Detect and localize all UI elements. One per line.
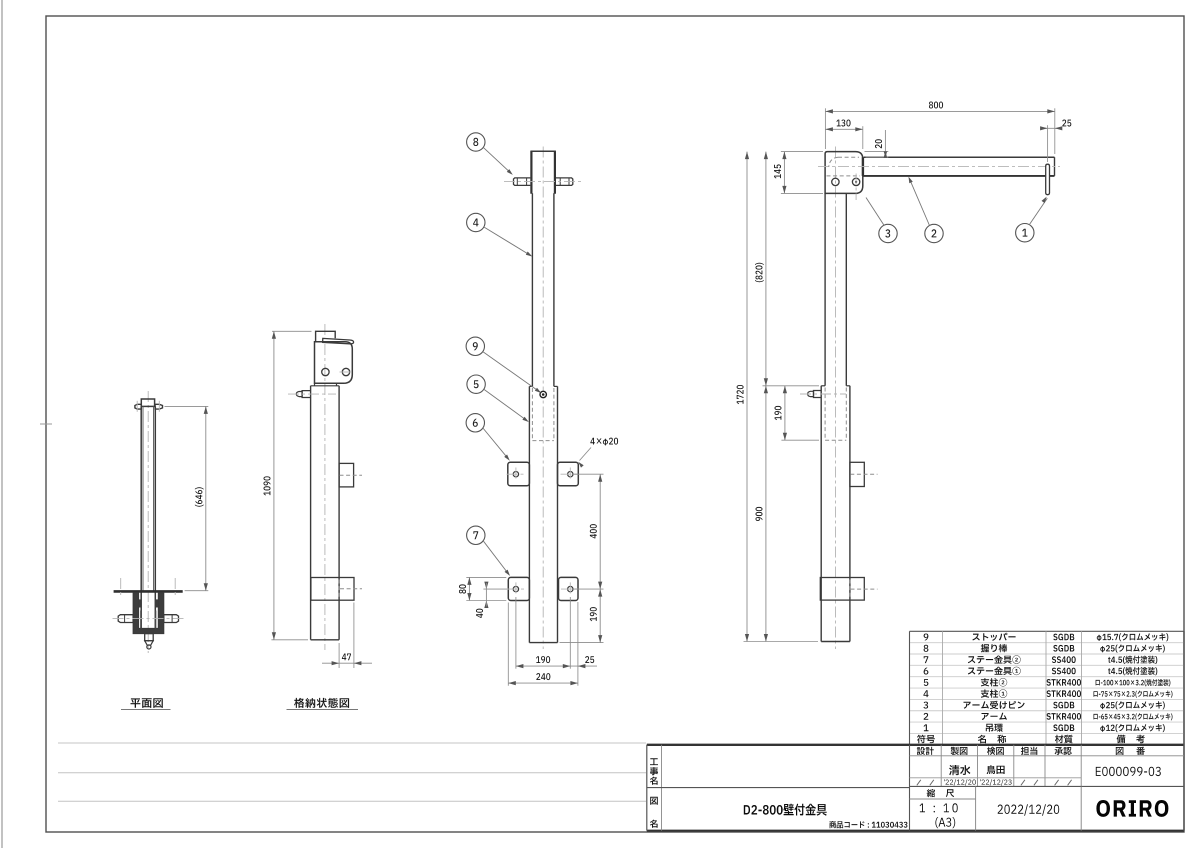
- side view head block: [825, 152, 863, 194]
- parts row 5: [924, 679, 929, 686]
- balloon 2: [925, 224, 943, 242]
- drawing number E000099-03: [1096, 767, 1161, 776]
- plan view clamp nut blocks: [139, 599, 142, 607]
- scale value 1:10 A3: [920, 803, 958, 812]
- plan view title 平面図: [131, 698, 163, 708]
- dimension 25 top right: [1047, 125, 1049, 162]
- label 工事名 vertical: [650, 758, 658, 765]
- plan view side screw right: [164, 615, 179, 623]
- signature dates: [944, 779, 976, 785]
- balloon 9: [466, 337, 484, 355]
- plan view tube inner walls: [142, 406, 144, 590]
- parts row 2: [924, 713, 929, 720]
- balloon 7: [467, 526, 485, 544]
- stowed view vertical centerline: [324, 324, 326, 650]
- dimension label (646): [195, 487, 204, 506]
- dimension label 190 side: [775, 406, 782, 420]
- dimension label 800: [929, 102, 943, 109]
- balloon 5: [467, 375, 485, 393]
- stowed view hook stowed (slanted ring): [323, 338, 354, 343]
- parts table header row: [917, 735, 935, 744]
- dimension 240 extension lines: [507, 603, 509, 686]
- lower stay hole right: [568, 586, 573, 591]
- dimension 240 line: [508, 682, 578, 684]
- title block sign grid: [940, 745, 942, 787]
- side view stay bracket 2 edge: [820, 578, 864, 601]
- stowed view title 格納状態図: [294, 698, 349, 708]
- side view hook ring (item 1): [1046, 164, 1050, 195]
- dimension 1090 extension lines: [272, 330, 312, 332]
- stowed view head hole left: [322, 368, 329, 375]
- dimension label 1090: [264, 476, 271, 495]
- dimension 47 extension lines: [338, 643, 340, 668]
- label 図名 vertical: [650, 797, 658, 805]
- stowed view head body: [315, 342, 353, 384]
- dimension label 47: [342, 654, 351, 661]
- balloon 3: [879, 224, 897, 242]
- stopper ball (item 9): [540, 391, 546, 397]
- signature 清水: [949, 765, 970, 775]
- lower stay hole left: [513, 586, 518, 591]
- parts row 7: [924, 656, 929, 663]
- dimension label 130: [836, 120, 850, 127]
- side view lower column: [820, 386, 822, 642]
- front view handle sleeve (top section): [530, 150, 556, 152]
- balloon 6: [466, 414, 484, 432]
- dimension label (820): [755, 263, 764, 282]
- dimension 800 extension lines: [824, 108, 826, 149]
- dimension label 145: [774, 164, 781, 178]
- plan view stopper pin centerline ticks: [136, 401, 138, 413]
- dimension label 190 vertical: [590, 607, 597, 621]
- lower stay plate left: [508, 577, 529, 600]
- upper stay hole left: [513, 472, 518, 477]
- dimension label 900: [756, 507, 763, 521]
- upper column 75sq: [531, 193, 533, 386]
- plan view U bracket section walls: [133, 593, 164, 634]
- balloon 8: [467, 133, 485, 151]
- plan view bottom bolt: [145, 634, 154, 641]
- balloon 1: [1016, 224, 1034, 242]
- upper stay plate left: [508, 462, 530, 485]
- dimension 190/25 horizontal extensions: [515, 597, 517, 669]
- stowed view top tab: [316, 331, 336, 342]
- parts table grid: [910, 630, 1185, 632]
- parts row 3: [923, 702, 928, 709]
- dimension 145: [781, 151, 823, 153]
- plan view clamp strips: [140, 611, 141, 629]
- plan view stopper pin left end: [135, 404, 141, 409]
- dimension 190 vertical line: [599, 589, 601, 643]
- stowed view stopper pin: [302, 391, 311, 398]
- side view upper column: [824, 193, 826, 385]
- dimension label 20: [875, 139, 882, 148]
- parts row 1: [924, 724, 929, 731]
- dimension 1720: [744, 641, 819, 643]
- dimension 190 vertical extension: [560, 642, 604, 644]
- notes area line 3: [58, 800, 646, 802]
- dimension 190 side view: [781, 439, 819, 441]
- stowed view stay bracket 2 (side): [311, 578, 354, 601]
- dimension 1090 line: [273, 331, 275, 640]
- plan view flange screw centerline right: [174, 578, 176, 598]
- dimension 80 line: [468, 577, 470, 600]
- dimension label 25 top: [1062, 120, 1071, 127]
- dimension label 80: [459, 584, 466, 593]
- notes area line 2: [58, 772, 646, 774]
- lower stay plate right: [559, 577, 579, 600]
- stowed view head hole right: [342, 368, 349, 375]
- logo ORIRO: [1096, 800, 1168, 817]
- parts row 8: [924, 645, 929, 652]
- side view head-arm junction wall: [862, 157, 864, 176]
- parts row 6: [924, 668, 929, 675]
- side view stopper pin: [814, 391, 822, 398]
- handle bar left (握り棒): [514, 178, 531, 186]
- stowed view stay bracket 1 (side): [339, 463, 354, 487]
- dimension (646) line: [205, 406, 207, 590]
- plan view side screw left: [118, 615, 133, 623]
- dimension 130 line: [825, 128, 862, 130]
- plan view stopper pin right end: [155, 404, 162, 409]
- plan view side screw centerline: [113, 618, 185, 620]
- side view arm centerline: [818, 166, 1060, 168]
- date 2022/12/20: [998, 804, 1060, 816]
- dimension label 240: [536, 673, 550, 680]
- dimension 20: [865, 151, 889, 153]
- handle bar right (握り棒): [556, 178, 573, 186]
- dimension 400 line: [599, 474, 601, 589]
- side view head hole centerline: [855, 174, 857, 201]
- plan view tube top cap: [141, 399, 154, 406]
- dimension (820): [763, 385, 820, 387]
- lower column 100sq: [528, 386, 530, 642]
- dimension label 25: [585, 656, 594, 663]
- dimension 40 extension line: [483, 588, 507, 590]
- dimension label 1720: [737, 385, 744, 404]
- frame centering tick left: [40, 423, 52, 425]
- signature 鳥田: [987, 765, 1005, 774]
- balloon 4: [467, 213, 485, 231]
- dimension 900: [765, 386, 767, 642]
- signature slashes: [917, 780, 921, 786]
- product code 商品コード: [829, 821, 907, 828]
- sign header labels: [917, 747, 934, 755]
- dimension 47 line: [322, 662, 372, 664]
- upper stay plate right: [558, 462, 579, 485]
- scale cell 縮尺: [910, 798, 942, 800]
- parts row 4: [923, 690, 928, 697]
- dimension label 40: [476, 609, 483, 618]
- dimension 400 extension lines: [574, 473, 604, 475]
- plan view vertical centerline: [147, 391, 149, 653]
- plan view tube outer walls: [140, 406, 142, 628]
- dimension 80 extension lines: [466, 576, 506, 578]
- label 4xφ20 with leader: [590, 438, 618, 446]
- page left edge line: [1, 0, 3, 848]
- dimension 190 horizontal line: [516, 665, 570, 667]
- hidden insert of upper column inside lower: [531, 388, 533, 441]
- side view head holes: [832, 178, 839, 185]
- plan view flange screw centerline left: [120, 578, 122, 598]
- notes area line 1: [58, 742, 646, 744]
- front view vertical centerline: [542, 147, 544, 650]
- side view hidden insert: [824, 388, 826, 441]
- title block left section 工事名/図名: [661, 745, 663, 831]
- dimension 800 line: [825, 110, 1054, 112]
- dimension 25 line: [570, 665, 597, 667]
- dimension label 400: [590, 524, 597, 538]
- side view vertical centerline: [835, 147, 837, 650]
- parts row 9: [924, 634, 929, 641]
- upper stay hole right: [568, 472, 573, 477]
- stowed view column: [310, 386, 312, 640]
- dimension label 190 horizontal: [536, 656, 550, 663]
- side view head hidden arm tube: [838, 156, 859, 158]
- plan view wall plate flange: [114, 590, 183, 593]
- side view arm (item 2): [864, 156, 1055, 158]
- dimension 40 line: [485, 589, 487, 600]
- drawing title D2-800壁付金具: [744, 804, 827, 816]
- title block outer border: [647, 744, 1184, 746]
- dimension (646) extension lines: [165, 405, 209, 407]
- side view stay bracket 1 edge: [850, 462, 864, 486]
- handle bar centerline: [504, 181, 584, 183]
